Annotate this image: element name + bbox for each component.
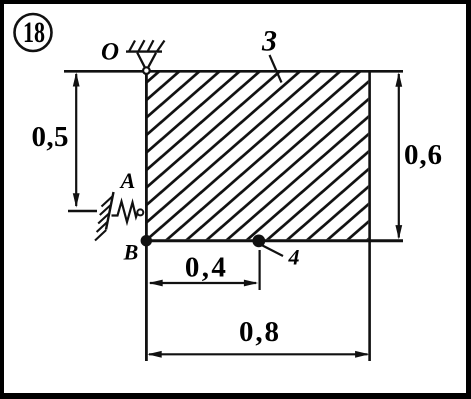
svg-text:0,6: 0,6 — [404, 139, 442, 171]
svg-text:O: O — [101, 39, 119, 66]
pivot support hatches — [129, 40, 165, 51]
svg-text:3: 3 — [261, 25, 277, 58]
pivot support O: ceiling line — [126, 50, 162, 52]
dimension 0,4 (horizontal) — [148, 252, 258, 287]
point 4 — [252, 235, 265, 248]
svg-text:0,4: 0,4 — [185, 252, 226, 284]
problem number circle 18 — [15, 14, 52, 51]
leader line for 4 — [263, 246, 284, 257]
leader line for 3 — [270, 55, 282, 83]
svg-text:0,5: 0,5 — [32, 121, 69, 153]
svg-text:18: 18 — [23, 16, 45, 49]
pivot triangle — [137, 53, 156, 68]
point B — [141, 235, 152, 246]
extension line below point 4 — [259, 250, 261, 290]
top edge line (with extensions for 0,5 and 0,6) — [64, 70, 403, 73]
spring — [112, 202, 139, 223]
svg-text:B: B — [123, 240, 139, 265]
dimension 0,8 (horizontal) — [147, 316, 369, 358]
frame border — [0, 0, 471, 4]
plate 3 (hatched rectangle) — [148, 72, 369, 239]
svg-text:4: 4 — [288, 245, 300, 270]
spring end circle at A — [137, 209, 143, 215]
right edge line (extends down as extension line for 0,8) — [368, 71, 371, 361]
dimension 0,5 (left vertical) — [32, 72, 98, 211]
dimension 0,6 (right vertical) — [395, 72, 442, 239]
spring wall hatches — [95, 196, 113, 241]
spring wall — [106, 192, 114, 230]
bottom edge line (with extension for 0,6) — [145, 239, 403, 242]
pin circle at O — [143, 67, 150, 74]
svg-text:A: A — [119, 168, 136, 193]
svg-text:0,8: 0,8 — [239, 316, 279, 348]
left edge line (extends down as extension line for 0,4 / 0,8) — [145, 71, 148, 361]
